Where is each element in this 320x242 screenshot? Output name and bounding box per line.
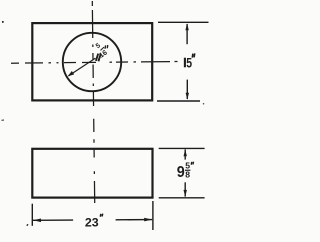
extension line left of 23 inch — [31, 204, 33, 226]
dimension text 23 inch — [85, 214, 103, 230]
23 inch left arrowhead — [33, 219, 41, 223]
15 inch dimension line upper segment — [186, 24, 188, 44]
15 inch lower arrowhead — [186, 93, 189, 100]
top view plate outline — [32, 23, 152, 100]
23 inch dimension line right segment — [116, 219, 153, 221]
svg-text:9: 9 — [177, 164, 185, 181]
9 5/8 inch dimension line lower segment — [184, 182, 186, 196]
dimension text 9 5/8 inch — [177, 160, 194, 180]
9 5/8 inch dimension line upper segment — [184, 149, 186, 159]
23 inch dimension line left segment — [33, 219, 73, 221]
svg-text:5: 5 — [186, 55, 192, 70]
23 inch right arrowhead — [144, 218, 152, 222]
svg-text:8: 8 — [185, 170, 190, 180]
stray mark below left extension — [27, 224, 28, 225]
svg-text:5: 5 — [95, 42, 102, 50]
stray mark top left — [2, 21, 4, 23]
hole circle — [63, 33, 121, 91]
horizontal centerline — [11, 62, 178, 64]
dimension text 15 inch — [185, 53, 195, 70]
stray mark left edge middle — [2, 119, 5, 121]
diameter leader line — [69, 58, 96, 76]
15 inch upper arrowhead — [185, 23, 188, 30]
15 inch dimension line lower segment — [186, 80, 188, 99]
front view plate outline — [32, 149, 152, 198]
extension line top of 15 inch — [158, 21, 209, 23]
extension line bottom of 15 inch — [157, 100, 200, 102]
extension line top of 9 5/8 inch — [159, 147, 205, 149]
extension line bottom of 9 5/8 inch — [159, 197, 205, 199]
extension line right of 23 inch — [152, 201, 154, 230]
diameter leader arrowhead — [68, 71, 75, 76]
9 5/8 inch lower arrowhead — [184, 190, 187, 197]
vertical centerline — [92, 1, 94, 203]
stray mark right of lower extension line — [203, 103, 204, 105]
9 5/8 inch upper arrowhead — [184, 149, 187, 156]
dimension text 11 5/16 inch — [95, 42, 109, 61]
svg-text:23: 23 — [85, 215, 99, 229]
